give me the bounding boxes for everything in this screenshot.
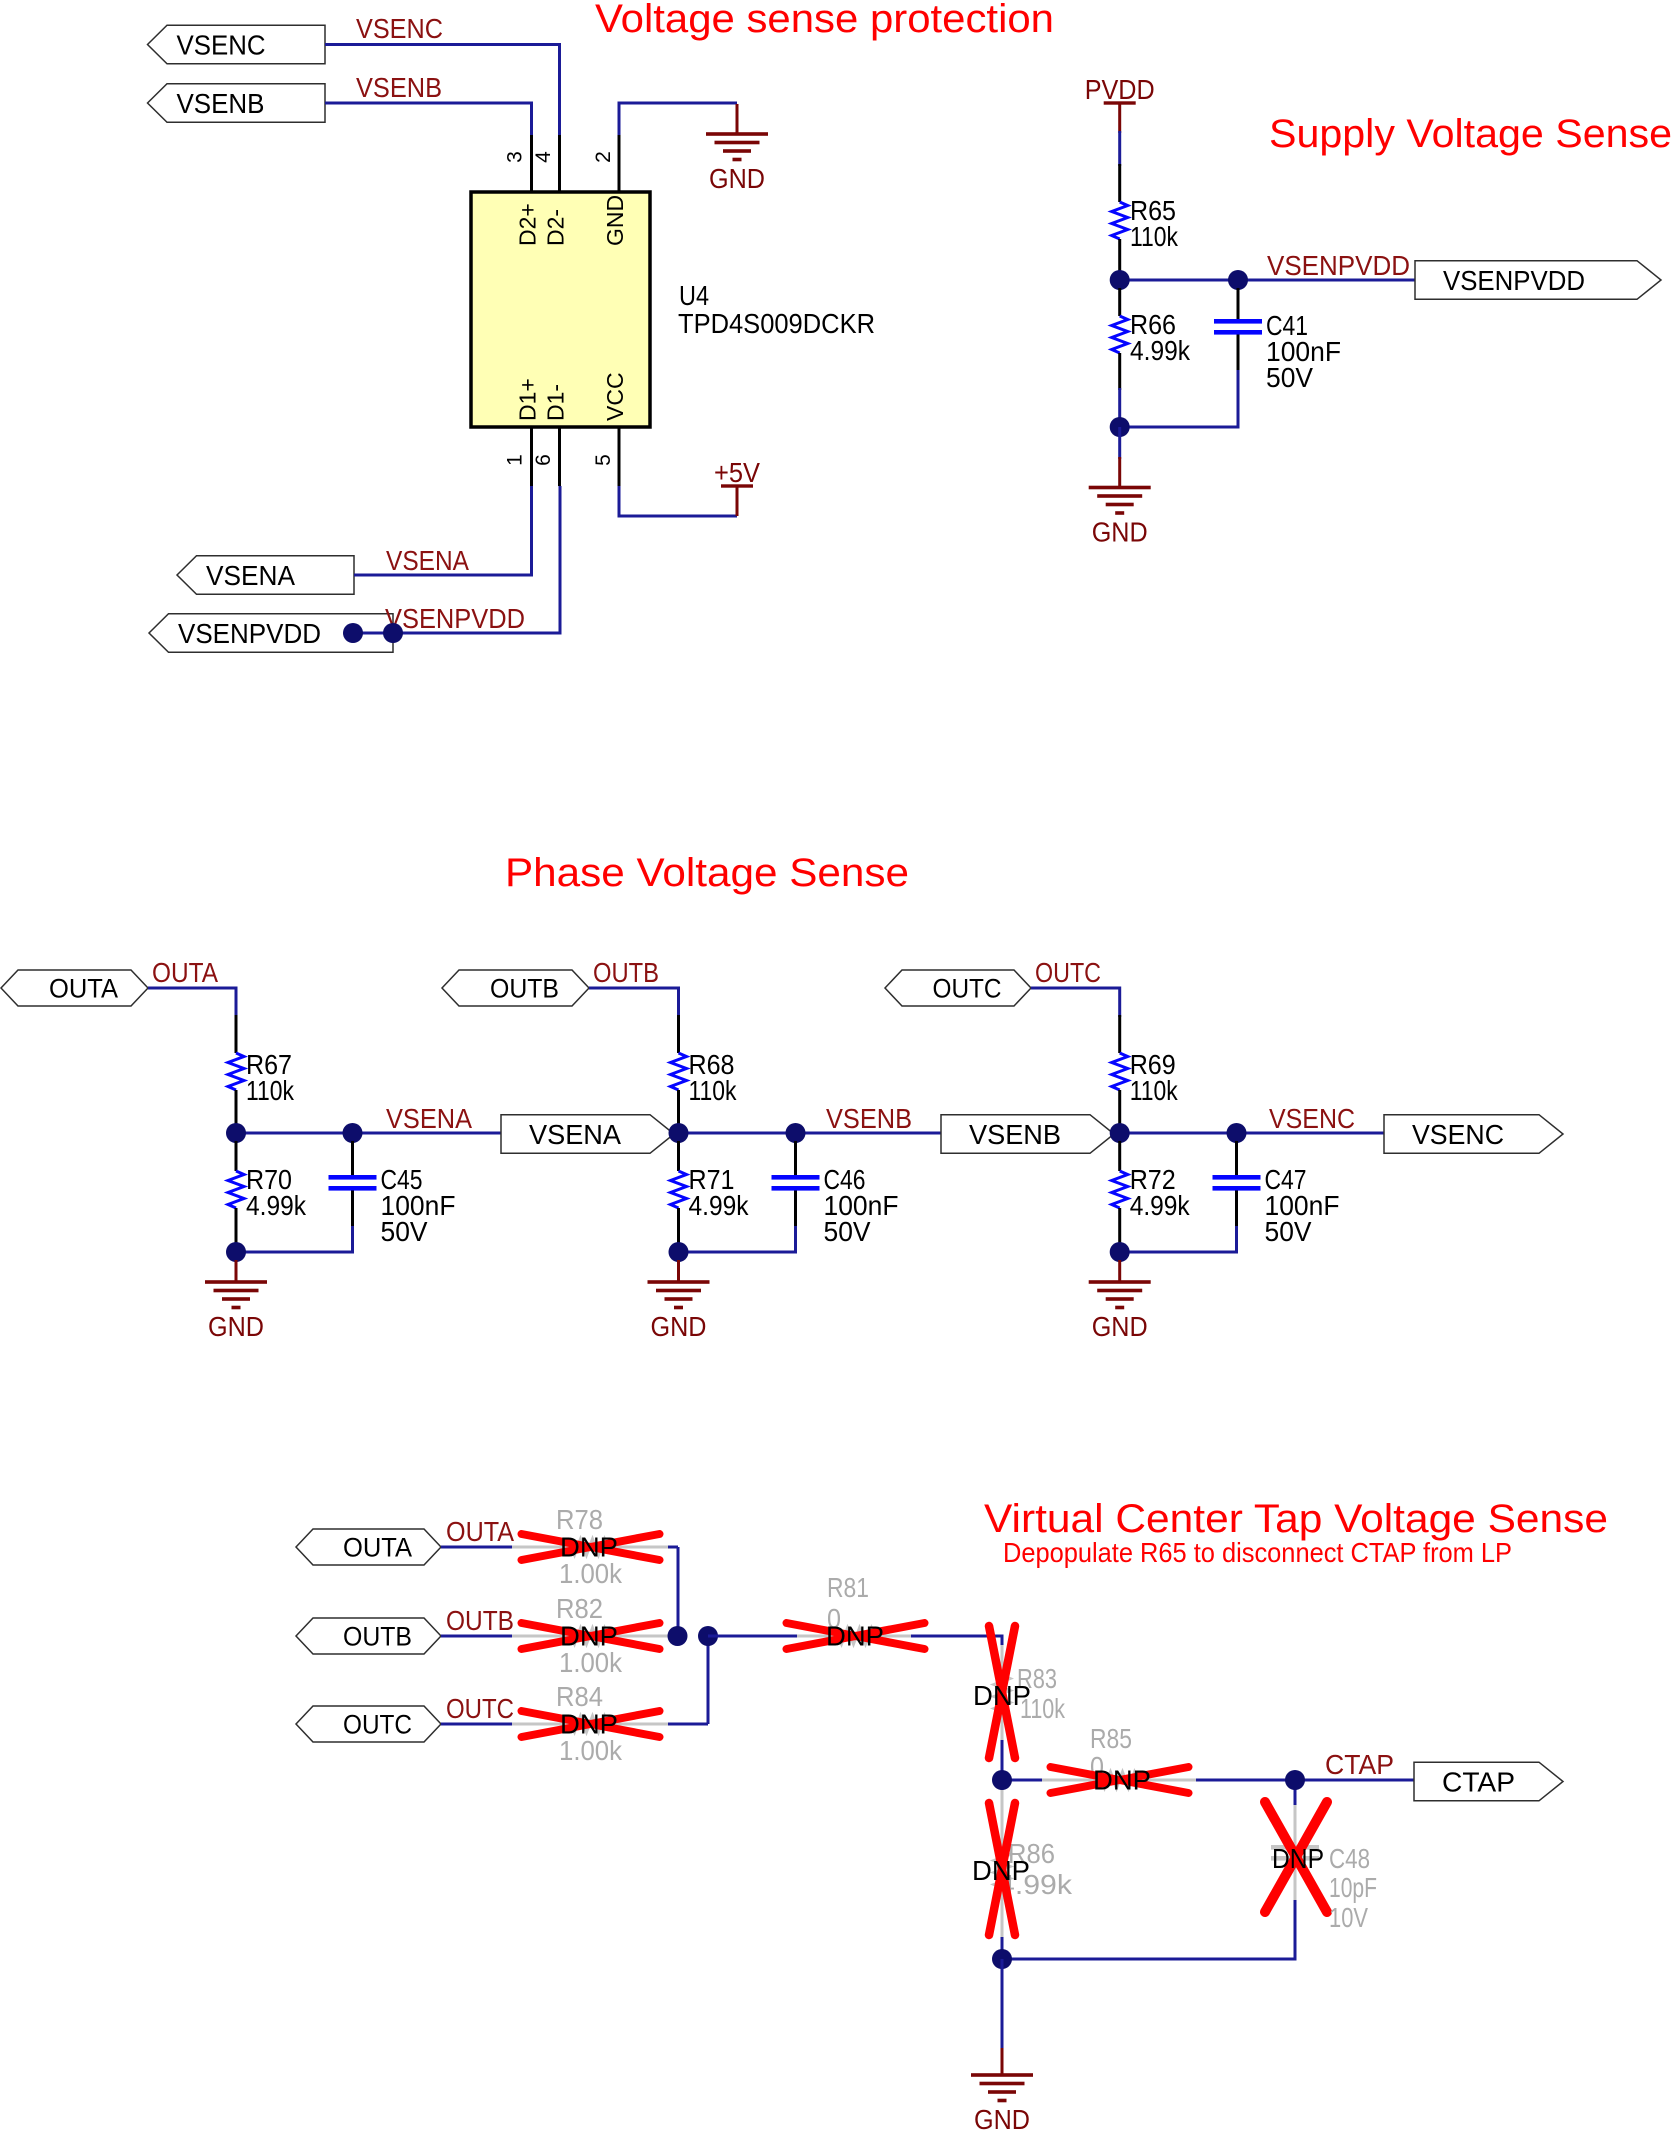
pin 4 stub (D2-) bbox=[558, 135, 561, 192]
wire CTAP node down to C48 bbox=[1294, 1780, 1297, 1808]
resistor R69 bbox=[1118, 1015, 1121, 1053]
wire R65 to node bbox=[1120, 274, 1238, 280]
svg-text:TPD4S009DCKR: TPD4S009DCKR bbox=[678, 308, 875, 339]
svg-text:Supply Voltage Sense: Supply Voltage Sense bbox=[1269, 112, 1672, 156]
svg-text:VSENC: VSENC bbox=[1412, 1119, 1504, 1150]
resistor R82 (DNP, grey) bbox=[512, 1635, 571, 1638]
port OUTA (hex input) bbox=[296, 1529, 441, 1565]
power symbol PVDD bbox=[1118, 103, 1121, 133]
capacitor C46 bbox=[794, 1141, 797, 1175]
pin 2 stub (GND) bbox=[618, 135, 621, 192]
svg-text:VSENC: VSENC bbox=[177, 30, 266, 61]
wire C41 to ground node bbox=[1120, 370, 1238, 427]
svg-text:1.00k: 1.00k bbox=[559, 1558, 623, 1589]
resistor R85 (DNP, grey) bbox=[1042, 1779, 1101, 1782]
svg-text:VSENC: VSENC bbox=[1269, 1103, 1355, 1134]
wire R72 to ground node bbox=[1118, 1243, 1121, 1252]
svg-text:GND: GND bbox=[1092, 1311, 1148, 1342]
svg-text:GND: GND bbox=[709, 163, 765, 194]
junction node VSENB (left) bbox=[669, 1123, 689, 1143]
svg-text:OUTB: OUTB bbox=[593, 957, 659, 988]
svg-text:110k: 110k bbox=[1130, 1075, 1179, 1106]
DNP X over R82 bbox=[522, 1623, 660, 1649]
svg-text:CTAP: CTAP bbox=[1325, 1749, 1394, 1780]
svg-text:3: 3 bbox=[504, 151, 527, 163]
port VSENPVDD (right output) bbox=[1415, 261, 1661, 300]
port VSENC (right output) bbox=[1384, 1115, 1563, 1154]
svg-text:GND: GND bbox=[208, 1311, 264, 1342]
junction node VSENPVDD (left) bbox=[1110, 270, 1130, 290]
svg-text:R85: R85 bbox=[1090, 1723, 1132, 1754]
svg-text:VSENB: VSENB bbox=[826, 1103, 912, 1134]
capacitor C45 bbox=[351, 1141, 354, 1175]
svg-text:110k: 110k bbox=[1130, 221, 1179, 252]
svg-text:DNP: DNP bbox=[826, 1621, 884, 1652]
wire node to port VSENB bbox=[796, 1132, 942, 1135]
wire R85 to CTAP bbox=[1196, 1779, 1414, 1782]
wire node to VSENPVDD port bbox=[1238, 279, 1415, 282]
port VSENPVDD (left input) bbox=[149, 614, 393, 653]
wire OUTC to R69 bbox=[1031, 988, 1120, 1017]
wire R69 to node bbox=[1120, 1126, 1237, 1133]
wire R84 up to summing node bbox=[707, 1636, 710, 1724]
svg-text:6: 6 bbox=[532, 454, 555, 466]
wire node to port VSENC bbox=[1237, 1132, 1385, 1135]
wire R82 right lead bbox=[668, 1635, 678, 1638]
wire pin 2 to ground bbox=[619, 103, 737, 135]
resistor R66 bbox=[1118, 288, 1121, 316]
svg-text:4.99k: 4.99k bbox=[246, 1190, 307, 1221]
junction summing node (left) bbox=[668, 1626, 688, 1646]
wire OUTA to R67 bbox=[148, 988, 236, 1017]
resistor R84 (DNP, grey) bbox=[512, 1723, 571, 1726]
ground symbol GND (OUTA) bbox=[235, 1260, 238, 1282]
svg-text:R81: R81 bbox=[827, 1572, 869, 1603]
wire pin 5 to +5V bbox=[619, 486, 737, 516]
resistor R65 bbox=[1118, 164, 1121, 202]
wire R78 right lead bbox=[668, 1546, 678, 1549]
svg-text:CTAP: CTAP bbox=[1442, 1767, 1515, 1798]
svg-text:DNP: DNP bbox=[1093, 1765, 1151, 1796]
svg-text:R84: R84 bbox=[556, 1681, 603, 1712]
wire R84 right lead bbox=[668, 1723, 708, 1726]
svg-text:4.99k: 4.99k bbox=[1130, 335, 1191, 366]
wire OUTB to R82 bbox=[441, 1635, 512, 1638]
svg-text:D1+: D1+ bbox=[515, 378, 541, 421]
junction node VSENC (cap) bbox=[1227, 1123, 1247, 1143]
svg-text:VSENA: VSENA bbox=[529, 1119, 621, 1150]
power symbol +5V bbox=[736, 486, 739, 516]
junction ground node OUTA bbox=[226, 1242, 246, 1262]
port VSENB (right output) bbox=[941, 1115, 1114, 1154]
svg-text:4: 4 bbox=[532, 151, 555, 163]
IC U4 body bbox=[471, 192, 650, 427]
svg-text:C48: C48 bbox=[1329, 1843, 1370, 1874]
capacitor C48 (DNP, grey) bbox=[1294, 1805, 1297, 1845]
junction node VSENPVDD (right) bbox=[1228, 270, 1248, 290]
svg-text:VSENA: VSENA bbox=[386, 545, 469, 576]
port VSENA (left input) bbox=[177, 556, 354, 595]
capacitor C41 bbox=[1237, 288, 1240, 319]
junction node VSENA (left) bbox=[226, 1123, 246, 1143]
port VSENB (left input) bbox=[148, 84, 326, 123]
svg-text:D2-: D2- bbox=[543, 209, 569, 246]
wire PVDD to R65 bbox=[1118, 131, 1121, 166]
DNP X over C48 bbox=[1265, 1802, 1327, 1912]
svg-text:50V: 50V bbox=[1265, 1216, 1312, 1247]
svg-text:Virtual Center Tap Voltage Sen: Virtual Center Tap Voltage Sense bbox=[984, 1497, 1608, 1541]
svg-text:OUTB: OUTB bbox=[343, 1622, 412, 1652]
port CTAP (right output) bbox=[1414, 1762, 1563, 1801]
svg-text:110k: 110k bbox=[246, 1075, 295, 1106]
junction R83/R85/R86 node bbox=[992, 1770, 1012, 1790]
wire bottom node to GND bbox=[1001, 1959, 1004, 2050]
resistor R83 (DNP, grey) bbox=[1001, 1645, 1004, 1675]
ground symbol GND (OUTC) bbox=[1118, 1260, 1121, 1282]
DNP X over R85 bbox=[1051, 1767, 1189, 1793]
resistor R72 bbox=[1118, 1141, 1121, 1171]
pin 3 stub (D2+) bbox=[530, 135, 533, 192]
wire R71 to ground node bbox=[677, 1243, 680, 1252]
svg-text:DNP: DNP bbox=[1272, 1843, 1324, 1874]
svg-text:OUTA: OUTA bbox=[152, 957, 218, 988]
DNP X over R83 bbox=[989, 1626, 1015, 1758]
svg-text:5: 5 bbox=[592, 454, 615, 466]
junction CTAP node bbox=[1285, 1770, 1305, 1790]
wire VSENA to pin 1 bbox=[354, 486, 532, 575]
wire R67 to node bbox=[236, 1126, 353, 1133]
DNP X over R81 bbox=[787, 1623, 925, 1649]
wire node to GND bbox=[1118, 427, 1121, 459]
svg-text:OUTA: OUTA bbox=[343, 1533, 412, 1563]
svg-text:DNP: DNP bbox=[972, 1855, 1030, 1886]
svg-text:D2+: D2+ bbox=[515, 203, 541, 246]
junction ground node bbox=[1110, 417, 1130, 437]
junction node VSENC (left) bbox=[1110, 1123, 1130, 1143]
svg-text:DNP: DNP bbox=[973, 1680, 1031, 1711]
resistor R68 bbox=[677, 1015, 680, 1053]
wire R68 to node bbox=[679, 1126, 796, 1133]
svg-text:VSENA: VSENA bbox=[386, 1103, 472, 1134]
wire VSENB to pin 3 bbox=[325, 103, 532, 135]
svg-text:D1-: D1- bbox=[543, 384, 569, 421]
svg-text:OUTA: OUTA bbox=[49, 974, 118, 1004]
svg-text:GND: GND bbox=[651, 1311, 707, 1342]
svg-text:OUTC: OUTC bbox=[446, 1693, 514, 1724]
port VSENA (right output) bbox=[501, 1115, 674, 1154]
wire OUTA to R78 bbox=[441, 1546, 512, 1549]
svg-text:R82: R82 bbox=[556, 1593, 603, 1624]
svg-text:4.99k: 4.99k bbox=[1130, 1190, 1191, 1221]
svg-text:VSENC: VSENC bbox=[356, 13, 443, 44]
port OUTB (hex input) bbox=[442, 970, 589, 1006]
ground symbol GND (supply) bbox=[1118, 457, 1121, 488]
svg-text:1: 1 bbox=[504, 454, 527, 466]
resistor R71 bbox=[677, 1141, 680, 1171]
svg-text:GND: GND bbox=[602, 195, 628, 246]
capacitor C47 bbox=[1235, 1141, 1238, 1175]
DNP X over R86 bbox=[989, 1803, 1015, 1935]
pin 1 stub (D1+) bbox=[530, 427, 533, 486]
svg-text:GND: GND bbox=[1092, 517, 1148, 548]
wire node to R85 bbox=[1002, 1779, 1044, 1782]
svg-text:2: 2 bbox=[592, 151, 615, 163]
port OUTC (hex input) bbox=[885, 970, 1031, 1006]
wire C45 to ground node bbox=[236, 1226, 353, 1252]
wire VSENPVDD to pin 6 bbox=[353, 486, 560, 633]
wire OUTB to R68 bbox=[589, 988, 679, 1017]
junction at VSENPVDD port edge bbox=[383, 623, 403, 643]
ground symbol GND (bottom) bbox=[1001, 2048, 1004, 2075]
svg-text:50V: 50V bbox=[1266, 362, 1313, 393]
DNP X over R78 bbox=[522, 1534, 660, 1560]
port OUTA (hex input) bbox=[1, 970, 148, 1006]
junction on VSENPVDD wire bbox=[343, 623, 363, 643]
svg-text:OUTC: OUTC bbox=[1035, 957, 1101, 988]
svg-text:VSENB: VSENB bbox=[177, 88, 265, 119]
resistor R67 bbox=[235, 1015, 238, 1053]
junction bottom ground node bbox=[992, 1949, 1012, 1969]
wire OUTC to R84 bbox=[441, 1723, 512, 1726]
svg-text:U4: U4 bbox=[679, 280, 709, 311]
ground symbol GND (top) bbox=[736, 104, 739, 134]
junction node VSENA (cap) bbox=[343, 1123, 363, 1143]
svg-text:1.00k: 1.00k bbox=[559, 1735, 623, 1766]
svg-text:Voltage sense protection: Voltage sense protection bbox=[595, 0, 1054, 41]
wire C46 to ground node bbox=[679, 1226, 796, 1252]
svg-text:OUTA: OUTA bbox=[446, 1516, 514, 1547]
resistor R70 bbox=[235, 1141, 238, 1171]
svg-text:R78: R78 bbox=[556, 1504, 603, 1535]
wire summing node to R81 bbox=[708, 1635, 799, 1638]
svg-text:10V: 10V bbox=[1329, 1902, 1368, 1933]
wire node to port VSENA bbox=[353, 1132, 502, 1135]
junction ground node OUTC bbox=[1110, 1242, 1130, 1262]
wire C48 to bottom node bbox=[1002, 1900, 1295, 1959]
svg-text:GND: GND bbox=[974, 2104, 1030, 2131]
svg-text:VSENPVDD: VSENPVDD bbox=[1267, 250, 1410, 281]
port OUTB (hex input) bbox=[296, 1618, 441, 1654]
svg-text:OUTB: OUTB bbox=[446, 1605, 514, 1636]
wire C47 to ground node bbox=[1120, 1226, 1237, 1252]
wire R86 to bottom node bbox=[1001, 1937, 1004, 1959]
svg-text:4.99k: 4.99k bbox=[689, 1190, 750, 1221]
svg-text:10pF: 10pF bbox=[1329, 1872, 1377, 1903]
svg-text:Depopulate R65 to disconnect C: Depopulate R65 to disconnect CTAP from L… bbox=[1003, 1537, 1512, 1568]
resistor R78 (DNP, grey) bbox=[512, 1546, 571, 1549]
wire R70 to ground node bbox=[235, 1243, 238, 1252]
svg-text:PVDD: PVDD bbox=[1085, 74, 1155, 105]
svg-text:VSENPVDD: VSENPVDD bbox=[1443, 265, 1585, 296]
junction summing node (right) bbox=[698, 1626, 718, 1646]
svg-text:VCC: VCC bbox=[602, 372, 628, 421]
svg-text:VSENA: VSENA bbox=[206, 560, 295, 591]
resistor R81 (DNP, grey) bbox=[797, 1635, 838, 1638]
svg-text:VSENPVDD: VSENPVDD bbox=[385, 603, 525, 634]
pin 5 stub (VCC) bbox=[618, 427, 621, 486]
resistor R86 (DNP, grey) bbox=[1001, 1780, 1004, 1851]
wire R83 to CTAP node row bbox=[1001, 1740, 1004, 1780]
svg-text:VSENB: VSENB bbox=[969, 1119, 1061, 1150]
svg-text:+5V: +5V bbox=[714, 457, 760, 488]
junction ground node OUTB bbox=[669, 1242, 689, 1262]
svg-text:VSENPVDD: VSENPVDD bbox=[178, 618, 321, 649]
wire VSENC to pin 4 bbox=[325, 45, 560, 136]
wire R81 to R83 bbox=[911, 1636, 1002, 1648]
svg-text:Phase Voltage Sense: Phase Voltage Sense bbox=[505, 851, 909, 895]
svg-text:VSENB: VSENB bbox=[356, 72, 442, 103]
ground symbol GND (OUTB) bbox=[677, 1260, 680, 1282]
svg-text:110k: 110k bbox=[689, 1075, 738, 1106]
svg-text:50V: 50V bbox=[381, 1216, 428, 1247]
svg-text:OUTC: OUTC bbox=[933, 974, 1002, 1004]
wire R66 to ground node bbox=[1118, 388, 1121, 427]
junction node VSENB (cap) bbox=[786, 1123, 806, 1143]
pin 6 stub (D1-) bbox=[558, 427, 561, 486]
svg-text:OUTC: OUTC bbox=[343, 1710, 412, 1740]
svg-text:OUTB: OUTB bbox=[490, 974, 559, 1004]
port VSENC (left input) bbox=[148, 25, 326, 64]
wire R78 down to summing node bbox=[677, 1547, 680, 1636]
svg-text:50V: 50V bbox=[824, 1216, 871, 1247]
port OUTC (hex input) bbox=[296, 1706, 441, 1742]
DNP X over R84 bbox=[522, 1711, 660, 1737]
svg-text:1.00k: 1.00k bbox=[559, 1647, 623, 1678]
